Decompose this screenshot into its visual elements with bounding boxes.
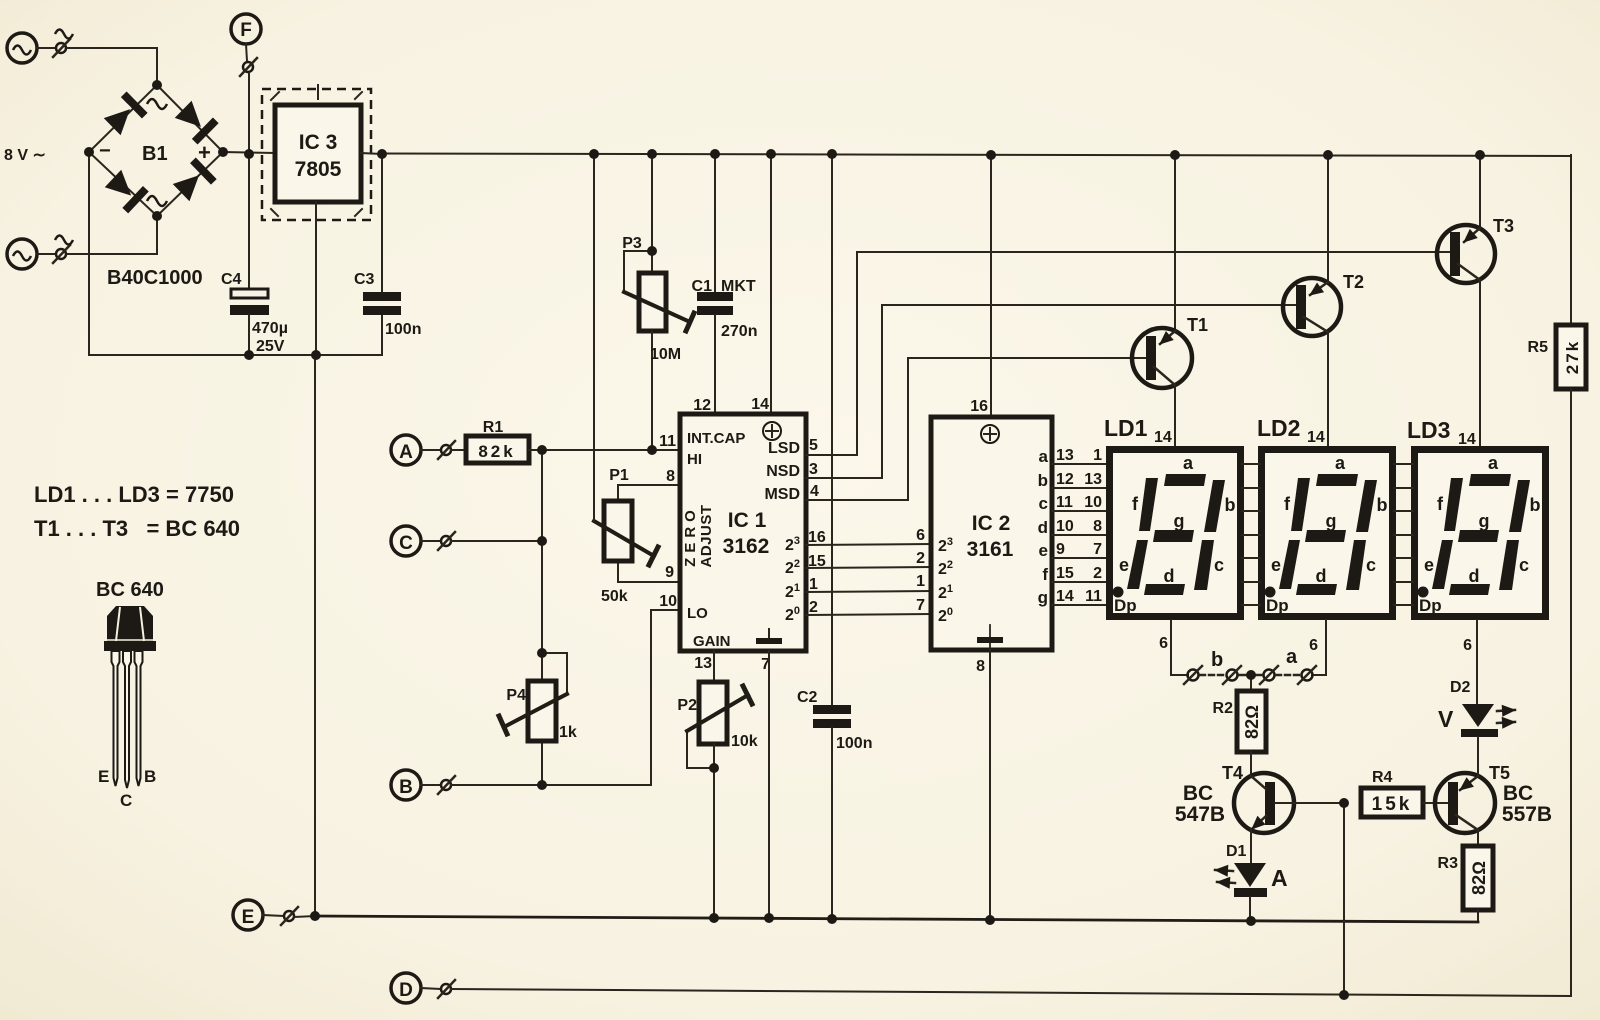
svg-text:E: E bbox=[98, 767, 109, 786]
svg-text:9: 9 bbox=[665, 564, 674, 581]
svg-text:b: b bbox=[1038, 471, 1048, 490]
svg-text:R4: R4 bbox=[1372, 769, 1393, 786]
svg-text:7: 7 bbox=[1093, 541, 1102, 558]
svg-text:NSD: NSD bbox=[766, 463, 800, 480]
svg-text:11: 11 bbox=[1085, 588, 1102, 605]
svg-text:14: 14 bbox=[1458, 431, 1476, 448]
svg-text:13: 13 bbox=[1084, 471, 1102, 488]
svg-text:1: 1 bbox=[809, 576, 818, 593]
svg-text:T1 . . . T3 = BC 640: T1 . . . T3 = BC 640 bbox=[34, 516, 240, 541]
svg-text:50k: 50k bbox=[601, 588, 628, 605]
svg-text:7805: 7805 bbox=[295, 158, 342, 181]
svg-text:V: V bbox=[1438, 706, 1454, 732]
svg-text:HI: HI bbox=[687, 451, 702, 468]
svg-text:12: 12 bbox=[693, 397, 711, 414]
svg-text:27k: 27k bbox=[1563, 340, 1582, 374]
svg-text:BC 640: BC 640 bbox=[96, 579, 164, 601]
svg-text:6: 6 bbox=[916, 527, 925, 544]
svg-text:b: b bbox=[1211, 649, 1223, 671]
svg-text:T2: T2 bbox=[1343, 272, 1364, 292]
svg-text:R3: R3 bbox=[1438, 855, 1459, 872]
svg-text:B: B bbox=[399, 777, 413, 798]
svg-text:R2: R2 bbox=[1213, 700, 1234, 717]
svg-text:g: g bbox=[1038, 588, 1048, 607]
svg-text:13: 13 bbox=[1056, 447, 1074, 464]
svg-text:A: A bbox=[1271, 865, 1288, 891]
svg-text:e: e bbox=[1039, 541, 1048, 560]
svg-text:d: d bbox=[1038, 518, 1048, 537]
svg-text:14: 14 bbox=[1154, 429, 1172, 446]
svg-text:B40C1000: B40C1000 bbox=[107, 267, 203, 289]
svg-text:11: 11 bbox=[659, 433, 676, 450]
svg-text:T5: T5 bbox=[1489, 763, 1510, 783]
svg-text:LD3: LD3 bbox=[1407, 417, 1450, 443]
svg-text:P2: P2 bbox=[677, 697, 697, 714]
svg-text:−: − bbox=[99, 140, 111, 162]
svg-text:16: 16 bbox=[970, 398, 988, 415]
svg-text:B: B bbox=[144, 767, 156, 786]
svg-text:14: 14 bbox=[1056, 588, 1074, 605]
svg-text:1: 1 bbox=[916, 573, 925, 590]
svg-text:BC: BC bbox=[1503, 782, 1533, 805]
svg-text:MSD: MSD bbox=[764, 486, 800, 503]
svg-text:T4: T4 bbox=[1222, 763, 1243, 783]
svg-text:BC: BC bbox=[1183, 782, 1213, 805]
svg-text:D: D bbox=[399, 980, 413, 1001]
svg-text:IC 3: IC 3 bbox=[299, 131, 338, 154]
svg-text:C3: C3 bbox=[354, 271, 375, 288]
svg-text:C2: C2 bbox=[797, 689, 818, 706]
svg-text:C: C bbox=[120, 791, 132, 810]
svg-text:1k: 1k bbox=[559, 724, 577, 741]
svg-text:+: + bbox=[198, 140, 211, 165]
svg-text:13: 13 bbox=[694, 655, 712, 672]
svg-text:T3: T3 bbox=[1493, 216, 1514, 236]
svg-text:INT.CAP: INT.CAP bbox=[687, 430, 745, 447]
svg-text:2: 2 bbox=[809, 599, 818, 616]
svg-text:270n: 270n bbox=[721, 323, 757, 340]
svg-text:10M: 10M bbox=[650, 346, 681, 363]
svg-text:4: 4 bbox=[810, 483, 819, 500]
svg-text:E: E bbox=[242, 907, 255, 928]
svg-text:IC 1: IC 1 bbox=[728, 509, 767, 532]
svg-text:3: 3 bbox=[809, 461, 818, 478]
svg-text:6: 6 bbox=[1309, 637, 1318, 654]
svg-text:C1: C1 bbox=[692, 278, 713, 295]
svg-text:7: 7 bbox=[916, 597, 925, 614]
svg-text:12: 12 bbox=[1056, 471, 1074, 488]
svg-text:F: F bbox=[240, 20, 252, 41]
svg-text:GAIN: GAIN bbox=[693, 633, 731, 650]
svg-text:25V: 25V bbox=[256, 338, 285, 355]
svg-text:14: 14 bbox=[751, 396, 769, 413]
svg-text:LSD: LSD bbox=[768, 440, 800, 457]
svg-text:6: 6 bbox=[1463, 637, 1472, 654]
svg-text:3161: 3161 bbox=[967, 538, 1014, 561]
svg-text:a: a bbox=[1286, 646, 1298, 668]
svg-text:P1: P1 bbox=[609, 467, 629, 484]
svg-text:C: C bbox=[399, 533, 413, 554]
svg-text:15: 15 bbox=[1056, 565, 1074, 582]
svg-text:16: 16 bbox=[808, 529, 826, 546]
svg-text:3162: 3162 bbox=[723, 535, 770, 558]
svg-text:T1: T1 bbox=[1187, 315, 1208, 335]
svg-text:14: 14 bbox=[1307, 429, 1325, 446]
svg-text:R1: R1 bbox=[483, 419, 504, 436]
svg-text:8: 8 bbox=[976, 658, 985, 675]
svg-text:2: 2 bbox=[1093, 565, 1102, 582]
svg-text:10k: 10k bbox=[731, 733, 758, 750]
svg-text:LD1: LD1 bbox=[1104, 415, 1148, 441]
svg-text:82k: 82k bbox=[478, 442, 515, 461]
svg-text:82Ω: 82Ω bbox=[1242, 705, 1262, 739]
svg-text:P4: P4 bbox=[506, 687, 526, 704]
svg-text:82Ω: 82Ω bbox=[1469, 861, 1489, 895]
svg-text:100n: 100n bbox=[836, 735, 872, 752]
svg-text:MKT: MKT bbox=[721, 278, 756, 295]
svg-text:C4: C4 bbox=[221, 271, 242, 288]
svg-text:8: 8 bbox=[666, 468, 675, 485]
svg-text:547B: 547B bbox=[1175, 803, 1225, 826]
svg-text:2: 2 bbox=[916, 550, 925, 567]
svg-text:LD1 . . . LD3 = 7750: LD1 . . . LD3 = 7750 bbox=[34, 482, 234, 507]
svg-text:8 V ∼: 8 V ∼ bbox=[4, 147, 46, 164]
svg-text:ADJUST: ADJUST bbox=[698, 504, 715, 567]
svg-text:c: c bbox=[1039, 494, 1048, 513]
svg-text:100n: 100n bbox=[385, 321, 421, 338]
svg-text:1: 1 bbox=[1093, 447, 1102, 464]
svg-text:15k: 15k bbox=[1372, 794, 1413, 815]
svg-text:LD2: LD2 bbox=[1257, 415, 1300, 441]
svg-text:IC 2: IC 2 bbox=[972, 512, 1011, 535]
svg-text:a: a bbox=[1039, 447, 1049, 466]
svg-text:10: 10 bbox=[1084, 494, 1102, 511]
svg-text:5: 5 bbox=[809, 437, 818, 454]
svg-text:9: 9 bbox=[1056, 541, 1065, 558]
svg-text:ZERO: ZERO bbox=[682, 505, 699, 567]
svg-text:D1: D1 bbox=[1226, 843, 1247, 860]
svg-text:11: 11 bbox=[1056, 494, 1073, 511]
svg-text:B1: B1 bbox=[142, 143, 168, 165]
svg-text:10: 10 bbox=[659, 593, 677, 610]
svg-text:R5: R5 bbox=[1528, 339, 1549, 356]
svg-text:A: A bbox=[399, 442, 413, 463]
svg-text:6: 6 bbox=[1159, 635, 1168, 652]
svg-text:P3: P3 bbox=[622, 235, 642, 252]
svg-text:D2: D2 bbox=[1450, 679, 1471, 696]
svg-text:10: 10 bbox=[1056, 518, 1074, 535]
svg-text:f: f bbox=[1042, 565, 1048, 584]
svg-text:8: 8 bbox=[1093, 518, 1102, 535]
svg-text:LO: LO bbox=[687, 605, 708, 622]
svg-text:557B: 557B bbox=[1502, 803, 1552, 826]
svg-text:470µ: 470µ bbox=[252, 320, 288, 337]
